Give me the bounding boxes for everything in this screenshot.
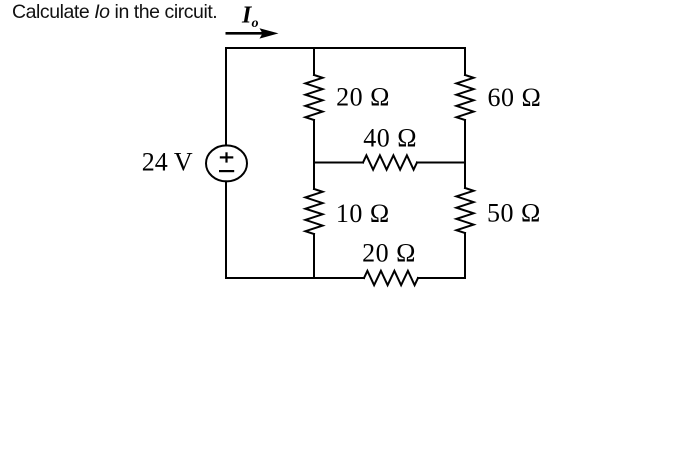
svg-text:40 Ω: 40 Ω (363, 123, 417, 152)
svg-text:20 Ω: 20 Ω (336, 83, 390, 112)
svg-text:o: o (252, 16, 259, 31)
svg-text:20 Ω: 20 Ω (362, 239, 416, 268)
svg-text:50 Ω: 50 Ω (487, 199, 541, 228)
svg-text:24 V: 24 V (142, 148, 193, 177)
svg-text:60 Ω: 60 Ω (488, 83, 542, 112)
svg-text:10 Ω: 10 Ω (336, 199, 390, 228)
